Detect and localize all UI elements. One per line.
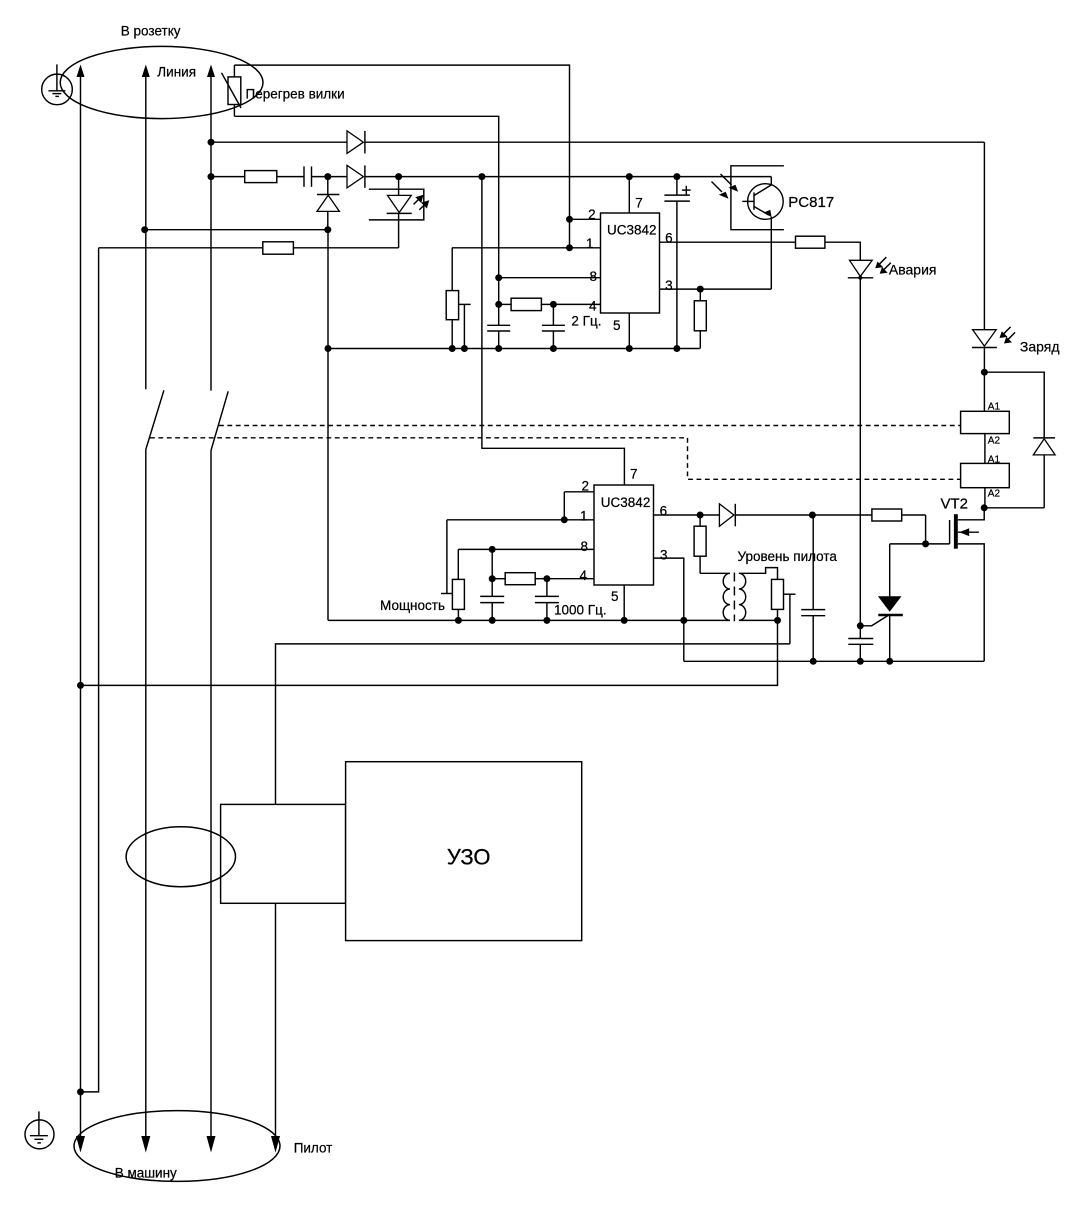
op-amp U2 UC3842: [594, 485, 654, 585]
junction (546.9,620.4): [543, 617, 550, 624]
svg-text:1000 Гц.: 1000 Гц.: [554, 603, 607, 618]
svg-text:2: 2: [581, 479, 589, 494]
U2 pin 8: [458, 548, 594, 550]
svg-text:Перегрев вилки: Перегрев вилки: [246, 86, 345, 101]
diode VD5: [719, 504, 735, 527]
junction (553.4,348.5): [550, 345, 557, 352]
junction (464.4,348.5): [461, 345, 468, 352]
wire N vertical: [81, 248, 99, 1092]
RCD sense window: [221, 804, 346, 903]
svg-text:5: 5: [613, 318, 621, 333]
junction (624.2,620.4): [621, 617, 628, 624]
socket plug ellipse: [60, 46, 263, 118]
junction (860.3,625.8): [857, 622, 864, 629]
optocoupler LED U3a: [369, 177, 425, 248]
wire supply row right: [365, 176, 771, 178]
resistor R9: [492, 573, 547, 585]
LED Авария: [848, 257, 891, 278]
U1 pin 7: [628, 177, 630, 213]
ground symbol bottom PE: [25, 1111, 54, 1149]
dashed link contacts to K2: [150, 438, 961, 480]
capacitor C1: [304, 166, 312, 186]
junction (984.4,372.2): [981, 369, 988, 376]
capacitor C7: [480, 549, 504, 620]
svg-text:UC3842: UC3842: [607, 223, 657, 238]
svg-text:5: 5: [611, 589, 619, 604]
junction (211,176.6): [208, 173, 215, 180]
svg-text:PC817: PC817: [788, 194, 834, 211]
wire secondary to PE: [81, 620, 778, 685]
junction (452.2,348.5): [449, 345, 456, 352]
wire right column down: [983, 142, 985, 330]
wire flyback branch: [984, 372, 1044, 438]
potentiometer R8 Мощность: [441, 520, 464, 621]
junction (492.2,620.4): [489, 617, 496, 624]
junction (80.5,685.4): [77, 682, 84, 689]
wire opto-LED return: [99, 247, 263, 249]
svg-text:УЗО: УЗО: [447, 845, 491, 870]
thyristor VS1: [860, 544, 903, 661]
U1 pin 5: [628, 313, 630, 349]
LED Заряд: [972, 327, 1015, 348]
junction (327.8,229.7): [324, 226, 331, 233]
wire Авария cathode down: [859, 278, 861, 626]
wire main ground riser: [327, 230, 329, 621]
junction (700.1,515): [697, 512, 704, 519]
capacitor C4 electrolytic: [664, 177, 690, 349]
junction (925.6,543.9): [922, 540, 929, 547]
wire right ground rail: [684, 660, 984, 662]
svg-text:3: 3: [660, 548, 668, 563]
junction (700.3,289.1): [697, 286, 704, 293]
wire supply row: [211, 176, 245, 178]
wire: [277, 176, 304, 178]
diode VD4 flyback: [1033, 438, 1055, 508]
svg-text:7: 7: [635, 196, 643, 211]
junction (80.5,1091.9): [77, 1088, 84, 1095]
resistor R5: [796, 236, 825, 248]
junction (553.4,304.4): [550, 301, 557, 308]
potentiometer R3 frequency: [446, 248, 470, 349]
wire primary bottom: [684, 619, 730, 621]
junction (498.7,348.5): [495, 345, 502, 352]
U2 pin 3: [654, 558, 684, 620]
svg-text:UC3842: UC3842: [601, 495, 651, 510]
resistor R2: [263, 242, 294, 254]
svg-text:A2: A2: [988, 436, 1001, 447]
capacitor C3: [542, 304, 565, 348]
dashed link contacts to K1: [219, 425, 961, 427]
junction (498.7,304.4): [495, 301, 502, 308]
U1 pin 3: [660, 288, 772, 290]
wire L1 vertical: [145, 68, 147, 389]
junction (211,142.2): [208, 139, 215, 146]
switch S1 lever: [146, 390, 164, 449]
junction (683.8,620.4): [680, 617, 687, 624]
svg-text:A2: A2: [988, 489, 1001, 500]
U2 pin 2: [564, 491, 594, 493]
junction (629.3,176.6): [626, 173, 633, 180]
resistor R6: [694, 289, 706, 348]
cable plug ellipse: [74, 1111, 280, 1182]
svg-text:3: 3: [665, 278, 673, 293]
svg-text:Заряд: Заряд: [1020, 339, 1060, 355]
svg-text:1: 1: [580, 509, 588, 524]
U1 pin 8: [499, 277, 601, 279]
svg-text:6: 6: [665, 231, 673, 246]
svg-text:8: 8: [580, 539, 588, 554]
zener VD3: [317, 177, 339, 230]
capacitor C8: [535, 579, 559, 621]
wire lower ground rail: [328, 619, 684, 621]
transformer T1 primary: [723, 573, 730, 620]
switch S2 lever: [211, 391, 228, 450]
wire PE vertical: [80, 68, 82, 1149]
wire U2 pin7 feed: [482, 177, 625, 485]
U2 pin 4: [547, 578, 594, 580]
junction (144.7,229.7): [141, 226, 148, 233]
resistor R7 gate: [872, 509, 902, 521]
U1 pin 6: [660, 241, 796, 243]
junction (813.2,661.3): [810, 658, 817, 665]
ground symbol top PE: [42, 64, 73, 104]
svg-text:VT2: VT2: [941, 496, 969, 513]
svg-text:4: 4: [589, 299, 597, 314]
thermistor RK1: [222, 65, 242, 116]
wire L1 tap: [145, 229, 328, 231]
capacitor C5: [848, 626, 873, 662]
junction (492.2,549.4): [489, 546, 496, 553]
svg-text:В машину: В машину: [115, 1166, 177, 1181]
U2 pin 1: [447, 519, 594, 521]
op-amp U1 UC3842: [601, 213, 660, 313]
wire row to Заряд: [211, 141, 347, 143]
wire thermistor bottom to U1 pin8: [234, 116, 498, 325]
resistor R4: [499, 298, 554, 310]
capacitor C6: [801, 515, 825, 661]
svg-text:2 Гц.: 2 Гц.: [571, 314, 601, 329]
junction (398.6,176.6): [395, 173, 402, 180]
svg-text:В розетку: В розетку: [121, 23, 181, 38]
wire pilot: [276, 644, 790, 1149]
wire Заряд cathode: [983, 348, 985, 412]
junction (676.9,176.6): [673, 173, 680, 180]
junction (569.5,247.8): [566, 244, 573, 251]
svg-text:1: 1: [586, 236, 594, 251]
junction (492.2,578.7): [489, 575, 496, 582]
wire K1 to K2: [984, 434, 986, 464]
wire rail jog down: [683, 620, 685, 661]
svg-text:2: 2: [588, 207, 596, 222]
junction (481.9,176.6): [478, 173, 485, 180]
svg-text:Пилот: Пилот: [294, 1141, 333, 1156]
resistor R1: [245, 171, 277, 183]
junction (984.2,507.8): [981, 504, 988, 511]
diode VD1: [347, 131, 365, 154]
svg-text:Мощность: Мощность: [380, 598, 445, 613]
block УЗО: [346, 762, 582, 941]
wire VD1 to right column: [365, 141, 985, 143]
potentiometer R11 pilot level: [772, 579, 796, 644]
junction (812.4,515): [809, 512, 816, 519]
wire thermistor top to U1 pin2/1: [234, 65, 569, 248]
junction (458.4,620.4): [455, 617, 462, 624]
transformer T1 secondary: [739, 573, 746, 620]
resistor R10: [694, 515, 729, 573]
wire secondary top jog: [739, 568, 778, 580]
capacitor C2: [487, 325, 510, 348]
junction (564.3,519.8): [561, 516, 568, 523]
wire L2 vertical: [210, 68, 212, 391]
junction (889.7,661.3): [886, 658, 893, 665]
U1 pin 2: [570, 218, 601, 220]
wire flyback return: [984, 507, 1044, 509]
U1 pin 4: [553, 303, 600, 305]
wire gate node: [890, 543, 950, 545]
wire to Авария LED: [825, 242, 860, 260]
wire gate resistor chain: [902, 514, 926, 516]
junction (569.5,219.3): [566, 216, 573, 223]
diode VD2: [347, 165, 365, 188]
svg-text:4: 4: [579, 568, 587, 583]
U2 pin 5: [623, 585, 625, 620]
wire pin6 node to R7: [735, 514, 872, 516]
junction (777.5,620.4): [774, 617, 781, 624]
junction (860.3,661.3): [857, 658, 864, 665]
RCD toroid ellipse: [126, 827, 235, 887]
wire: [293, 247, 398, 249]
transformer T1 core: [733, 573, 735, 622]
junction (676.9,348.5): [673, 345, 680, 352]
svg-text:Линия: Линия: [157, 64, 196, 79]
wire upper ground rail: [328, 348, 700, 350]
optocoupler transistor U3b PC817: [712, 166, 784, 289]
svg-text:6: 6: [660, 504, 668, 519]
wire K2 to drain node: [984, 488, 986, 508]
junction (328,348.5): [325, 345, 332, 352]
wire secondary bottom: [739, 619, 778, 621]
U2 pin 6: [654, 514, 720, 516]
svg-text:8: 8: [589, 269, 597, 284]
svg-text:Авария: Авария: [889, 262, 937, 278]
junction (498.7,277.7): [495, 274, 502, 281]
wire pin2 to pin1: [563, 492, 565, 520]
junction (546.9,578.7): [543, 575, 550, 582]
junction (860.3,277.8): [858, 276, 862, 280]
svg-text:Уровень пилота: Уровень пилота: [738, 549, 838, 564]
svg-text:7: 7: [630, 466, 638, 481]
U1 pin 1: [452, 247, 601, 249]
junction (327.8,176.6): [324, 173, 331, 180]
junction (629.3,348.5): [626, 345, 633, 352]
wire: [312, 176, 348, 178]
